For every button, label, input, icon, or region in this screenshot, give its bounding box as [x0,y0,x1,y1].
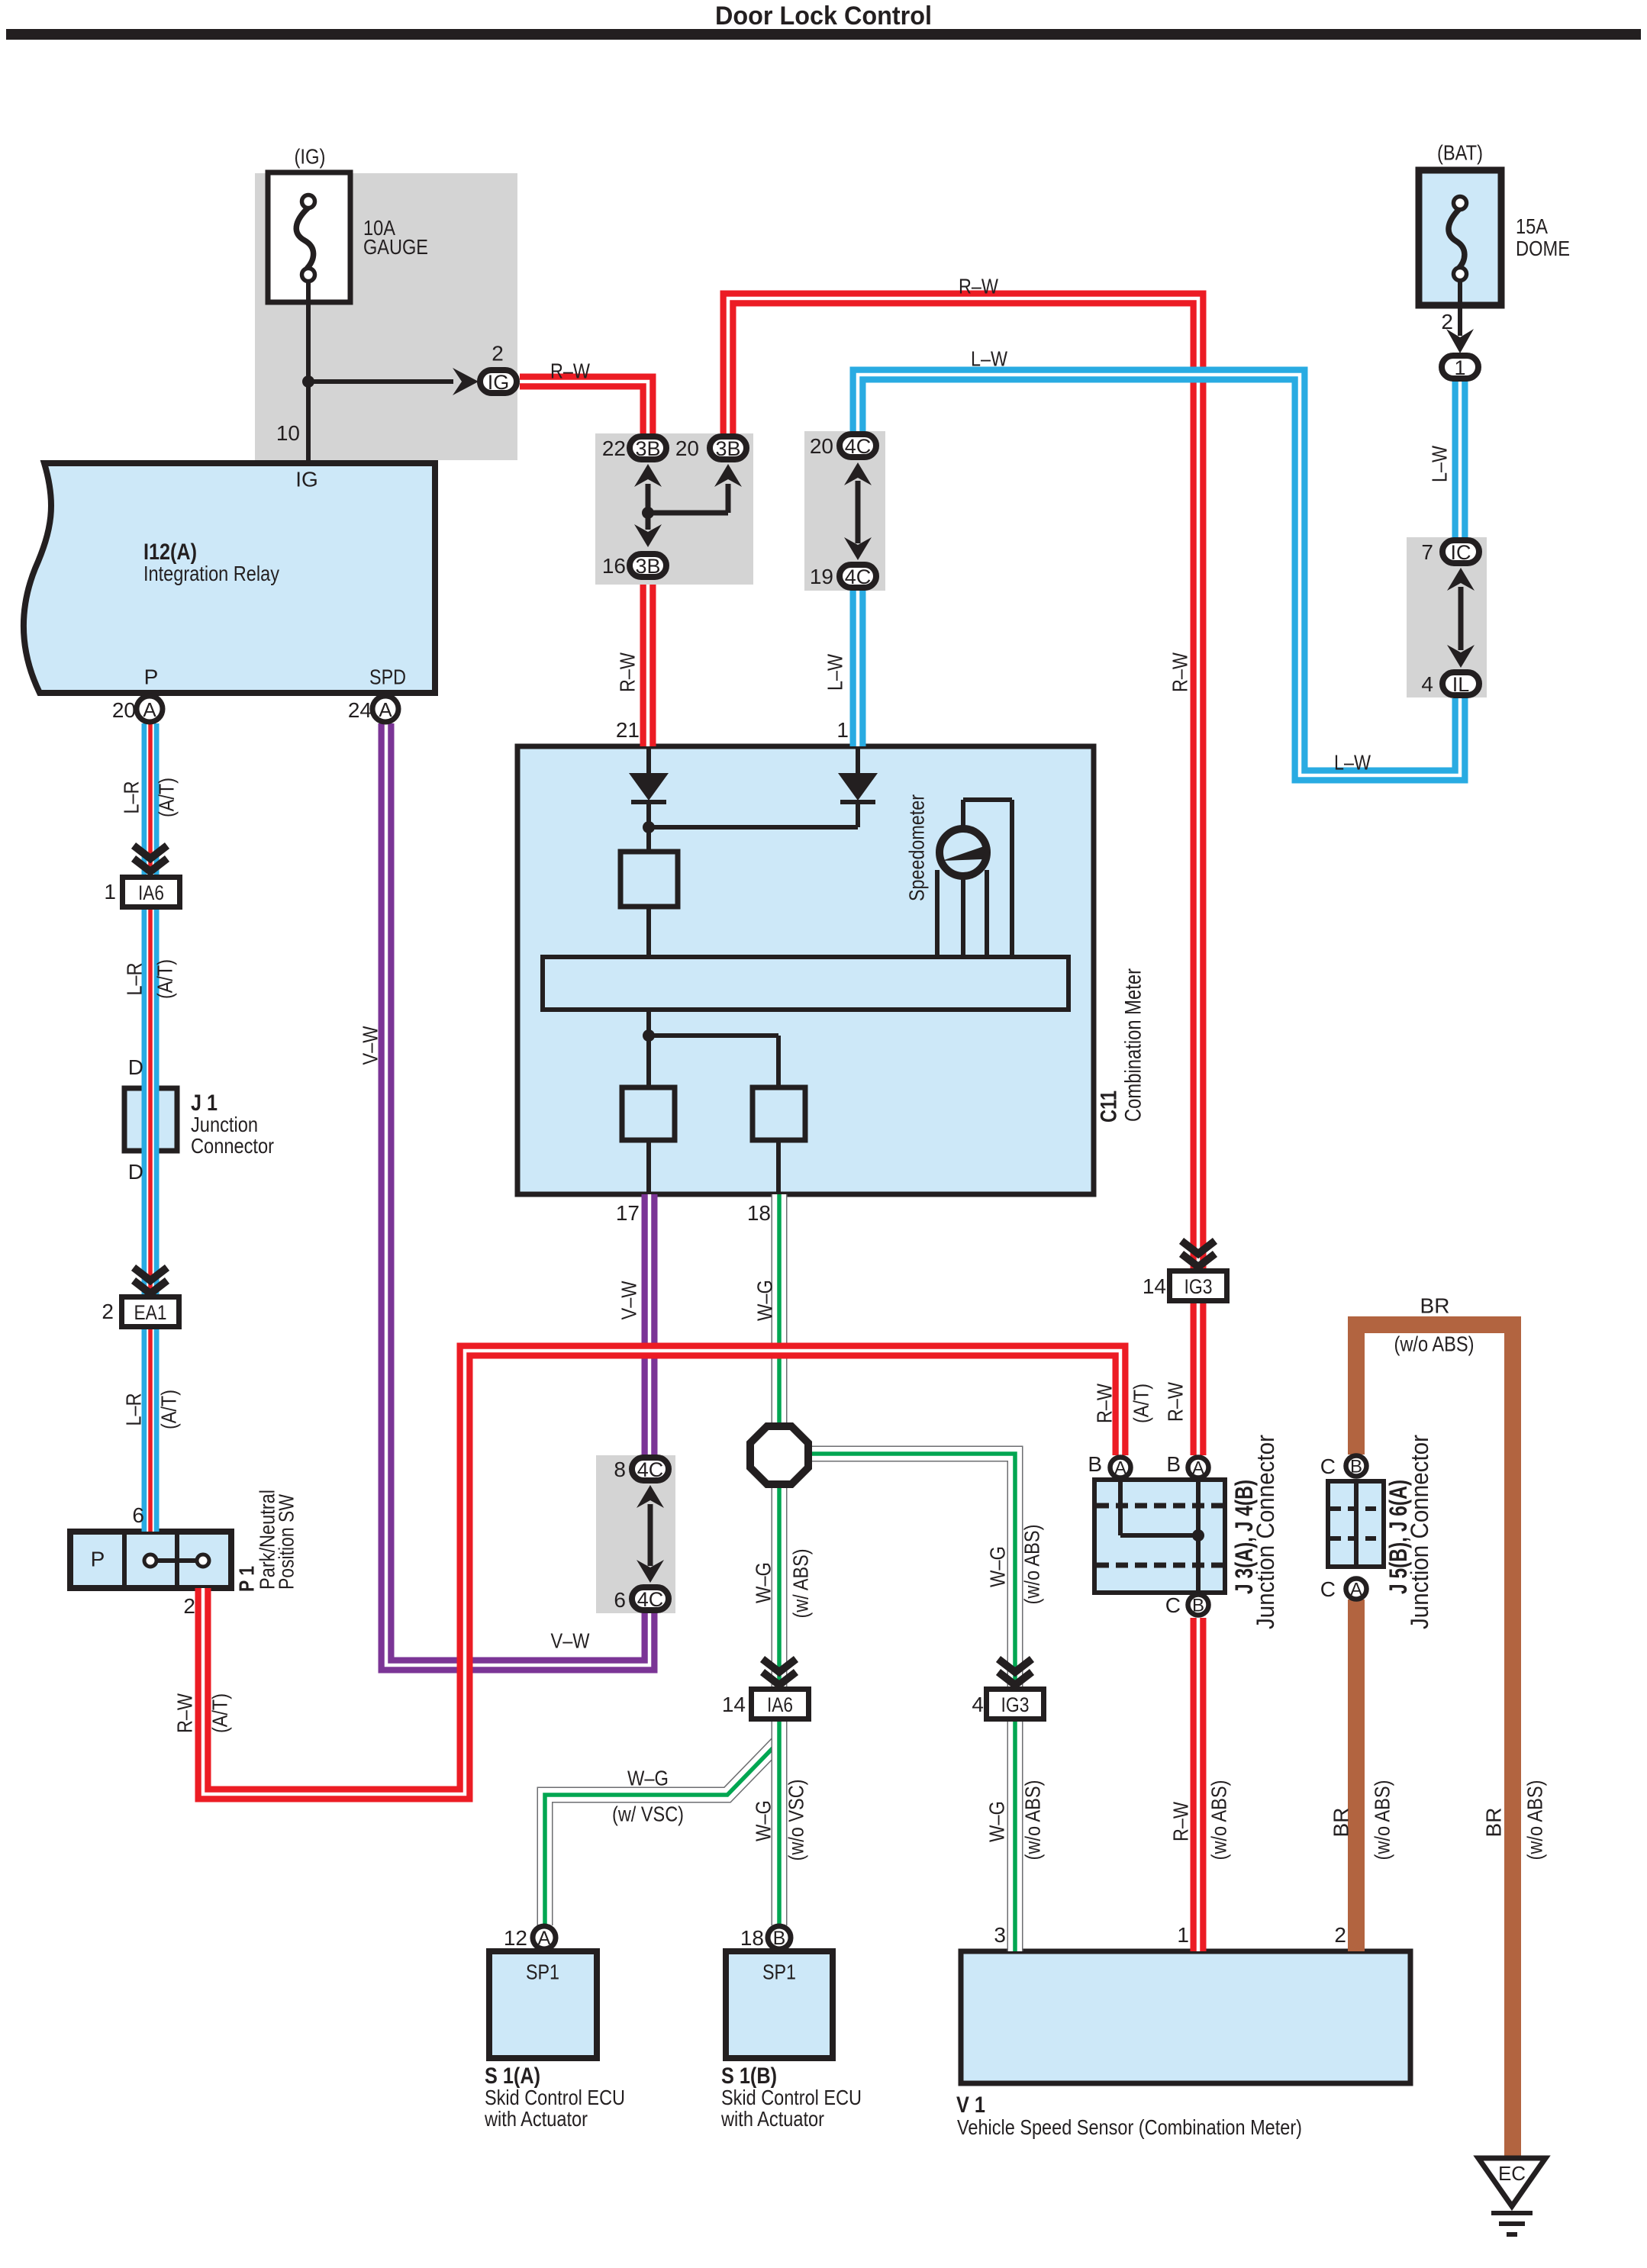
svg-text:V 1: V 1 [956,2092,985,2118]
svg-text:W–G: W–G [986,1546,1010,1587]
svg-text:16: 16 [602,554,626,578]
svg-text:B: B [1192,1596,1204,1616]
svg-text:1: 1 [104,880,116,904]
svg-text:with Actuator: with Actuator [720,2107,824,2131]
svg-text:V–W: V–W [617,1281,641,1319]
svg-text:(w/ VSC): (w/ VSC) [612,1802,684,1826]
svg-text:L–W: L–W [971,347,1007,371]
svg-text:20: 20 [675,437,699,460]
svg-text:10: 10 [276,421,300,445]
svg-text:W–G: W–G [985,1801,1009,1842]
svg-text:SPD: SPD [369,665,406,689]
svg-text:BR: BR [1330,1808,1353,1838]
svg-text:17: 17 [616,1201,640,1225]
svg-text:with Actuator: with Actuator [484,2107,588,2131]
svg-text:W–G: W–G [752,1562,775,1603]
svg-text:6: 6 [132,1503,144,1527]
svg-text:2: 2 [102,1300,114,1323]
svg-text:6: 6 [614,1588,626,1612]
svg-text:B: B [1350,1457,1362,1477]
svg-text:14: 14 [1143,1274,1166,1298]
svg-text:L–R: L–R [123,963,147,996]
svg-text:R–W: R–W [550,359,590,383]
svg-text:EA1: EA1 [134,1301,167,1324]
svg-text:Connector: Connector [191,1134,274,1158]
svg-text:IL: IL [1452,673,1470,696]
svg-text:L–R: L–R [122,1393,146,1426]
svg-text:15A: 15A [1516,214,1548,238]
svg-text:(w/o ABS): (w/o ABS) [1020,1525,1044,1605]
svg-text:GAUGE: GAUGE [363,235,428,259]
svg-text:3B: 3B [715,437,740,460]
svg-text:L–W: L–W [1428,446,1452,482]
svg-text:4C: 4C [845,435,872,458]
svg-text:A: A [379,698,392,721]
svg-text:A: A [1192,1458,1204,1479]
svg-text:(A/T): (A/T) [208,1693,232,1733]
svg-text:2: 2 [492,342,504,366]
svg-text:(w/ ABS): (w/ ABS) [789,1549,813,1619]
svg-text:Junction Connector: Junction Connector [1252,1435,1279,1629]
svg-text:8: 8 [614,1458,626,1481]
svg-text:R–W: R–W [1093,1384,1117,1423]
svg-text:(A/T): (A/T) [157,1390,181,1429]
svg-text:3B: 3B [635,437,660,460]
svg-text:4C: 4C [845,565,872,588]
svg-text:1: 1 [836,718,849,742]
svg-text:A: A [143,698,156,721]
svg-text:IG3: IG3 [1184,1275,1213,1298]
svg-text:Combination Meter: Combination Meter [1121,968,1146,1122]
svg-text:18: 18 [740,1926,764,1950]
svg-text:V–W: V–W [551,1629,590,1653]
svg-text:1: 1 [1177,1923,1189,1947]
svg-text:R–W: R–W [1169,1802,1193,1841]
svg-text:20: 20 [112,698,136,722]
svg-text:B: B [773,1928,786,1949]
svg-text:Vehicle Speed Sensor (Combinat: Vehicle Speed Sensor (Combination Meter) [957,2115,1302,2139]
svg-text:DOME: DOME [1516,237,1570,260]
svg-text:(A/T): (A/T) [1130,1384,1153,1423]
svg-text:(w/o ABS): (w/o ABS) [1371,1780,1394,1860]
svg-text:(A/T): (A/T) [155,778,179,817]
svg-text:IC: IC [1451,541,1471,564]
svg-text:4: 4 [1421,672,1433,696]
svg-text:C11: C11 [1097,1091,1122,1123]
svg-text:B: B [1166,1452,1181,1476]
svg-text:W–G: W–G [753,1280,777,1321]
svg-text:2: 2 [1441,310,1453,333]
svg-text:A: A [1350,1580,1362,1600]
svg-text:A: A [538,1928,551,1949]
svg-text:(w/o VSC): (w/o VSC) [785,1780,808,1861]
svg-text:(BAT): (BAT) [1437,141,1483,165]
svg-text:3B: 3B [635,555,660,578]
svg-text:EC: EC [1498,2162,1526,2185]
svg-text:L–R: L–R [120,781,143,814]
svg-text:7: 7 [1421,540,1433,564]
svg-text:B: B [1088,1452,1102,1476]
svg-text:C: C [1320,1577,1336,1601]
svg-text:(w/o ABS): (w/o ABS) [1207,1780,1231,1860]
svg-text:A: A [1114,1458,1126,1479]
svg-text:Junction: Junction [191,1113,258,1136]
svg-text:R–W: R–W [959,275,998,298]
svg-text:20: 20 [810,434,833,458]
svg-text:2: 2 [1334,1923,1346,1947]
svg-text:L–W: L–W [1334,751,1371,775]
svg-text:R–W: R–W [616,652,640,692]
svg-text:2: 2 [183,1594,195,1618]
svg-text:IG: IG [295,468,318,491]
svg-text:24: 24 [348,698,372,722]
svg-text:Position SW: Position SW [275,1494,298,1590]
svg-text:21: 21 [616,718,640,742]
svg-text:R–W: R–W [1164,1382,1188,1422]
svg-text:4C: 4C [637,1588,664,1611]
svg-text:18: 18 [747,1201,771,1225]
svg-text:(A/T): (A/T) [153,959,177,999]
svg-text:Speedometer: Speedometer [905,794,929,901]
svg-text:SP1: SP1 [762,1960,796,1984]
svg-text:P: P [144,665,159,689]
svg-text:IG3: IG3 [1001,1693,1030,1716]
svg-text:R–W: R–W [173,1693,197,1733]
svg-text:3: 3 [994,1923,1006,1947]
svg-text:Skid Control ECU: Skid Control ECU [721,2086,862,2109]
svg-text:L–W: L–W [823,654,847,691]
svg-text:Junction Connector: Junction Connector [1406,1435,1433,1629]
svg-text:C: C [1165,1593,1181,1617]
svg-text:W–G: W–G [752,1800,775,1841]
svg-text:19: 19 [810,565,833,588]
svg-text:BR: BR [1420,1294,1450,1318]
svg-text:(IG): (IG) [295,145,326,169]
svg-text:IG: IG [488,371,510,394]
svg-text:Skid Control ECU: Skid Control ECU [485,2086,625,2109]
svg-text:C: C [1320,1455,1336,1478]
svg-text:Door Lock Control: Door Lock Control [715,2,932,31]
svg-text:D: D [128,1160,143,1184]
svg-text:4: 4 [972,1693,984,1716]
svg-text:IA6: IA6 [138,881,164,904]
svg-text:R–W: R–W [1168,652,1192,692]
svg-text:(w/o ABS): (w/o ABS) [1523,1780,1547,1860]
svg-text:12: 12 [504,1926,527,1950]
svg-text:22: 22 [602,437,626,460]
svg-text:IA6: IA6 [767,1693,793,1716]
svg-text:SP1: SP1 [526,1960,559,1984]
svg-text:4C: 4C [637,1458,664,1481]
svg-text:BR: BR [1482,1808,1506,1838]
svg-text:1: 1 [1454,356,1465,379]
svg-text:Integration Relay: Integration Relay [143,562,279,585]
svg-text:W–G: W–G [627,1767,669,1790]
svg-text:P: P [91,1548,105,1571]
svg-text:D: D [128,1055,143,1079]
svg-text:V–W: V–W [359,1026,382,1065]
svg-text:(w/o ABS): (w/o ABS) [1021,1780,1045,1860]
svg-text:(w/o ABS): (w/o ABS) [1394,1332,1475,1356]
svg-text:14: 14 [722,1693,746,1716]
